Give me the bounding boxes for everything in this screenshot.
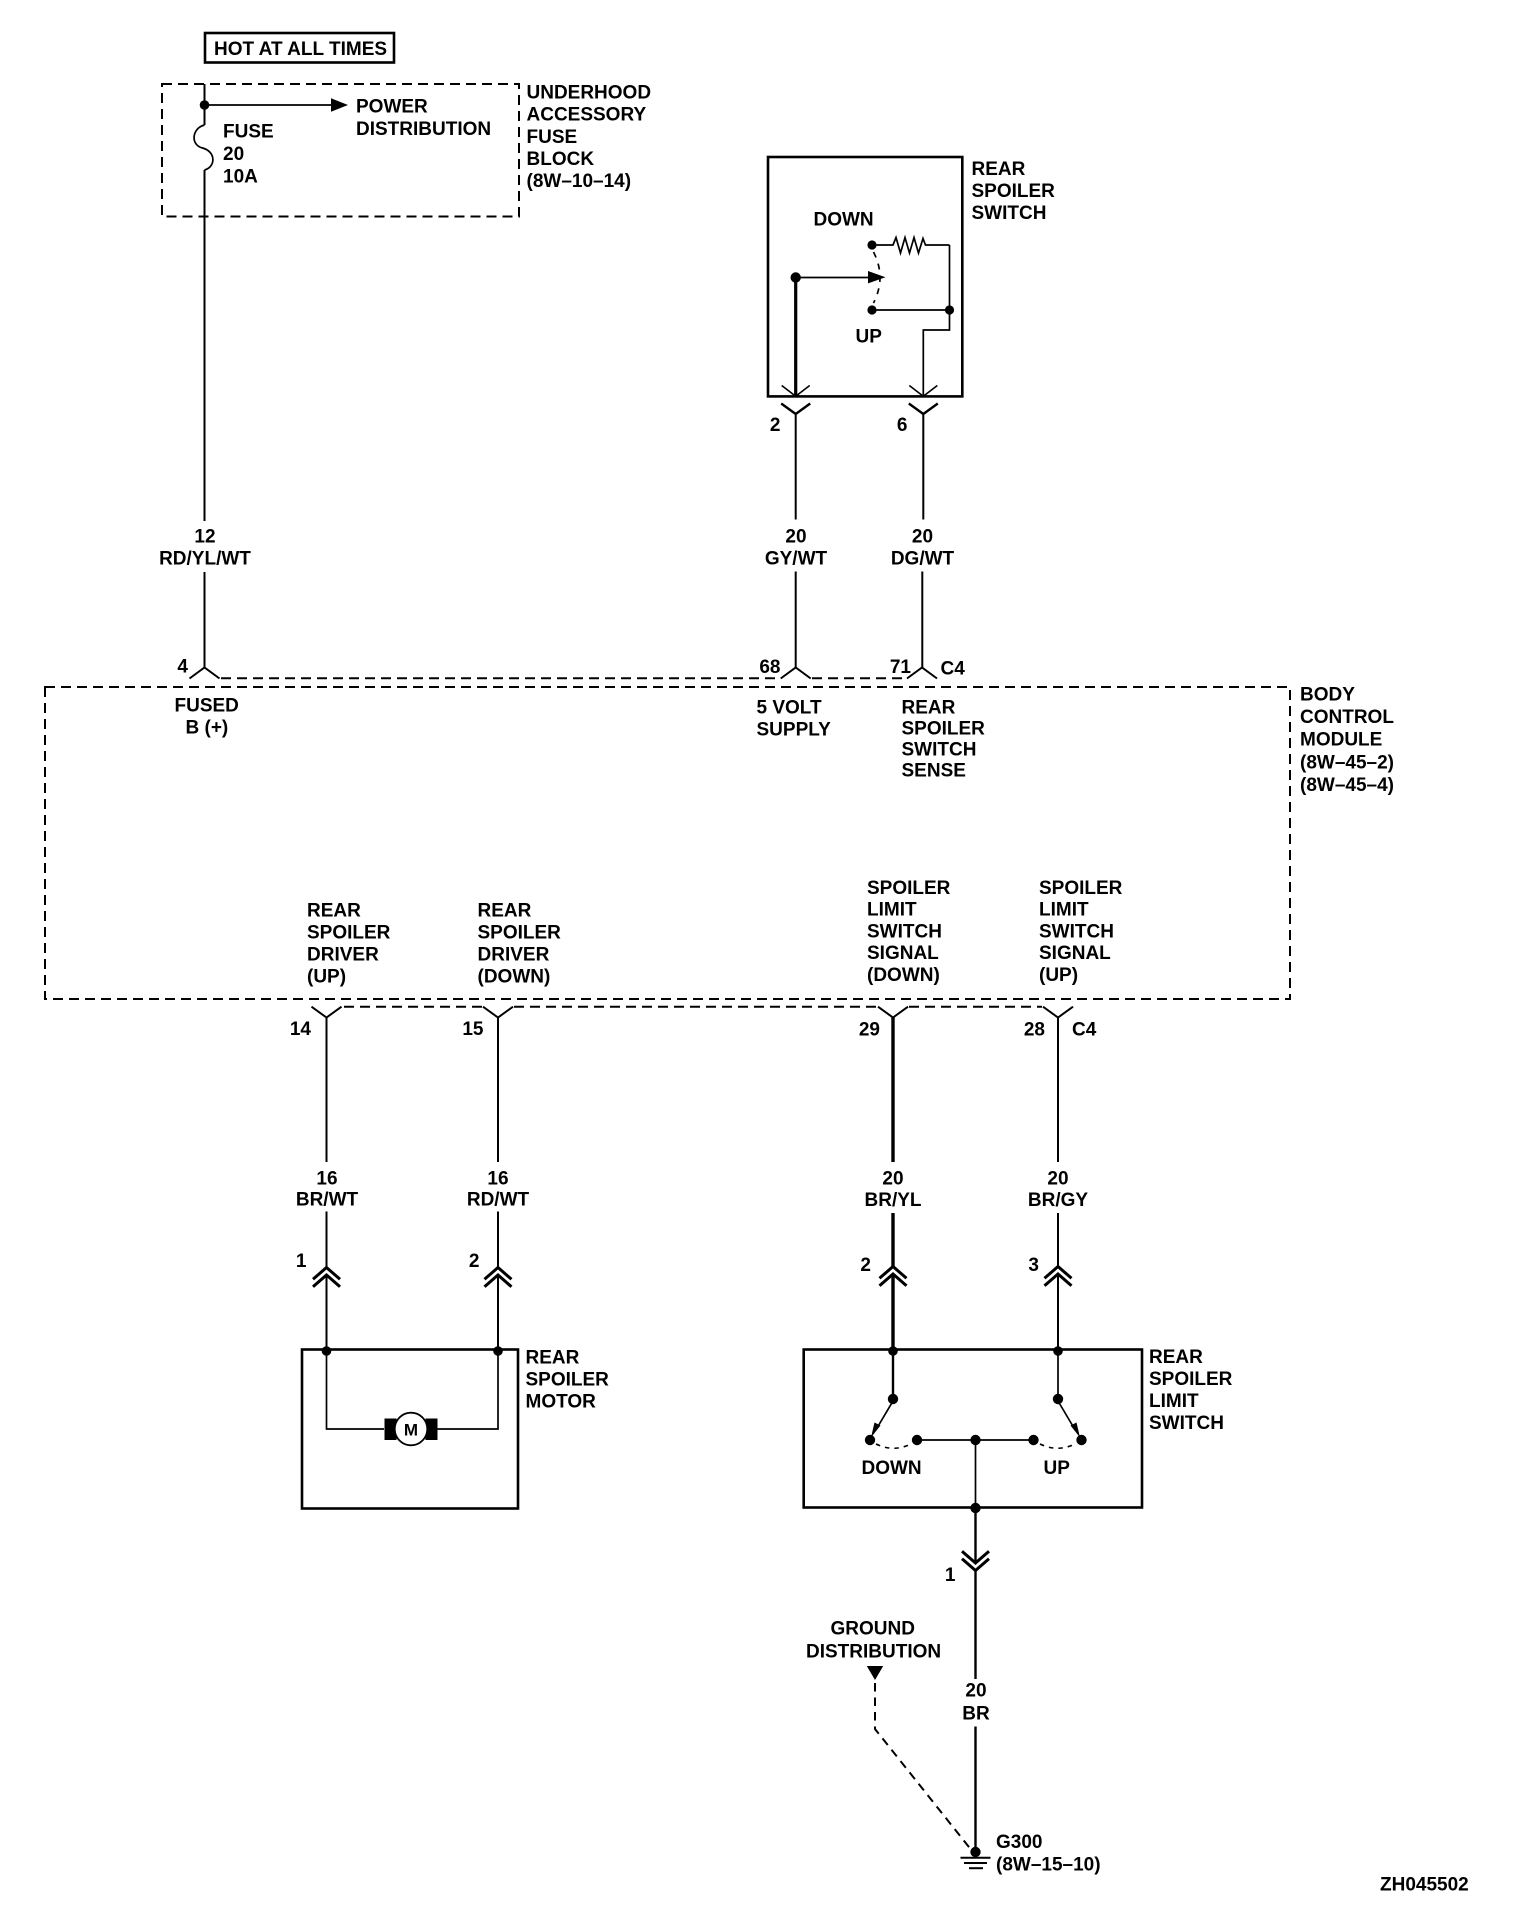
- exit arrow at pin 2: [782, 386, 810, 397]
- wire: limit switch common to inline connector: [974, 1508, 976, 1563]
- wire: BCM pin 15 down to label gap: [497, 1018, 499, 1163]
- svg-text:SPOILER: SPOILER: [902, 719, 986, 740]
- svg-text:SWITCH: SWITCH: [1039, 921, 1114, 942]
- svg-text:1: 1: [296, 1251, 307, 1272]
- wire: RD/YL/WT down to BCM pin 4: [204, 572, 206, 668]
- svg-text:(8W–15–10): (8W–15–10): [996, 1854, 1101, 1875]
- wire label 20 GY/WT: [765, 527, 828, 570]
- pin 28 connector at BCM: [1024, 1007, 1073, 1041]
- svg-text:REAR: REAR: [902, 698, 956, 719]
- svg-text:SWITCH: SWITCH: [902, 740, 977, 761]
- svg-text:4: 4: [177, 657, 188, 678]
- ground G300 symbol: [961, 1858, 991, 1868]
- svg-text:(UP): (UP): [1039, 965, 1078, 986]
- underhood fuse block name label: [527, 82, 652, 192]
- wire: connector to motor box: [326, 1276, 328, 1349]
- wire: right lead to motor: [438, 1351, 499, 1429]
- wire: connector to limit switch box (thick): [891, 1275, 894, 1349]
- wire: BR/GY down to inline connector: [1057, 1213, 1059, 1267]
- svg-text:DRIVER: DRIVER: [478, 945, 550, 966]
- common node: [970, 1435, 980, 1445]
- svg-text:BODY: BODY: [1300, 684, 1355, 705]
- svg-text:LIMIT: LIMIT: [867, 900, 917, 921]
- svg-text:68: 68: [759, 657, 780, 678]
- switch DOWN contact node: [867, 240, 876, 249]
- svg-text:SWITCH: SWITCH: [1149, 1413, 1224, 1434]
- wire: battery feed into fuse: [204, 84, 206, 125]
- rear spoiler limit switch name label: [1149, 1347, 1233, 1434]
- node: down feed at box edge: [888, 1346, 898, 1356]
- switch common node: [791, 272, 801, 282]
- svg-text:6: 6: [897, 415, 908, 436]
- svg-text:16: 16: [487, 1168, 508, 1189]
- svg-text:GROUND: GROUND: [831, 1619, 915, 1640]
- svg-text:20: 20: [882, 1169, 903, 1190]
- svg-text:SPOILER: SPOILER: [867, 878, 951, 899]
- svg-text:SPOILER: SPOILER: [478, 923, 562, 944]
- svg-text:20: 20: [965, 1681, 986, 1702]
- rear spoiler motor name label: [526, 1348, 610, 1413]
- pin 14 connector at BCM: [290, 1007, 342, 1040]
- wire: BR/YL down to inline connector (thick): [891, 1213, 894, 1267]
- ground distribution arrow (filled triangle): [867, 1666, 883, 1680]
- svg-text:71: 71: [890, 657, 912, 678]
- up switch wiper arrow: [1058, 1401, 1080, 1438]
- wire label 20 BR: [962, 1681, 990, 1725]
- pin 29 connector at BCM: [859, 1007, 908, 1041]
- svg-text:MODULE: MODULE: [1300, 730, 1382, 751]
- node REAR SPOILER SWITCH SENSE label: [902, 698, 986, 782]
- svg-text:SWITCH: SWITCH: [867, 921, 942, 942]
- power distribution label: [356, 97, 491, 141]
- svg-text:UNDERHOOD: UNDERHOOD: [527, 82, 652, 103]
- node 5 VOLT SUPPLY label: [757, 698, 832, 741]
- wire: BCM pin 28 down to label gap: [1057, 1018, 1059, 1163]
- wire: fuse output down to label gap: [204, 170, 206, 521]
- svg-text:28: 28: [1024, 1020, 1045, 1041]
- svg-text:2: 2: [860, 1255, 871, 1276]
- pin 4 connector at BCM: [177, 657, 219, 679]
- svg-text:SPOILER: SPOILER: [526, 1370, 610, 1391]
- svg-text:UP: UP: [1044, 1458, 1071, 1479]
- wire: common down to box edge: [975, 1440, 977, 1508]
- svg-text:SIGNAL: SIGNAL: [867, 943, 939, 964]
- wire: pin 2 down to label gap: [795, 414, 797, 520]
- svg-text:ZH045502: ZH045502: [1380, 1875, 1469, 1896]
- svg-text:DRIVER: DRIVER: [307, 945, 379, 966]
- svg-text:G300: G300: [996, 1832, 1042, 1853]
- wire: common down to pin 2 (thick): [794, 278, 797, 397]
- pin 15 connector at BCM: [462, 1007, 513, 1040]
- svg-text:2: 2: [770, 415, 781, 436]
- svg-text:CONTROL: CONTROL: [1300, 707, 1394, 728]
- exit arrow at pin 6: [909, 386, 937, 397]
- svg-text:C4: C4: [941, 659, 966, 680]
- wire: feed to power distribution with arrow: [205, 98, 349, 112]
- switch wiper arrow: [796, 271, 886, 283]
- wire label 16 RD/WT: [467, 1168, 530, 1210]
- svg-text:REAR: REAR: [1149, 1347, 1203, 1368]
- svg-text:2: 2: [469, 1251, 480, 1272]
- svg-text:RD/WT: RD/WT: [467, 1190, 530, 1211]
- pin 6 connector below switch: [897, 404, 938, 437]
- node FUSED B(+) label: [175, 696, 239, 739]
- svg-text:14: 14: [290, 1019, 312, 1040]
- pin 2 connector below switch: [770, 404, 810, 437]
- svg-text:SPOILER: SPOILER: [972, 181, 1056, 202]
- svg-text:(8W–45–2): (8W–45–2): [1300, 752, 1394, 773]
- wire: poles to common: [917, 1439, 1034, 1441]
- svg-text:SIGNAL: SIGNAL: [1039, 943, 1111, 964]
- down switch pivot node: [888, 1394, 898, 1404]
- fuse F20 value label: [223, 122, 274, 188]
- svg-text:GY/WT: GY/WT: [765, 549, 828, 570]
- node: ground exit at box edge: [970, 1503, 980, 1513]
- node SPOILER LIMIT SWITCH SIGNAL (UP) label: [1039, 878, 1123, 986]
- wire label 20 DG/WT: [891, 527, 955, 570]
- svg-text:16: 16: [316, 1168, 337, 1189]
- inline connector pin 2 (limit switch): [860, 1255, 906, 1286]
- inline connector pin 3 (limit switch): [1028, 1255, 1071, 1286]
- body control module (dashed box): [45, 687, 1290, 999]
- ground distribution label: [806, 1619, 941, 1663]
- svg-text:10A: 10A: [223, 167, 258, 188]
- wire: connector to limit switch box: [1057, 1275, 1059, 1349]
- svg-text:(8W–10–14): (8W–10–14): [527, 171, 632, 192]
- svg-text:(DOWN): (DOWN): [867, 965, 940, 986]
- node REAR SPOILER DRIVER (UP) label: [307, 901, 391, 988]
- svg-text:DISTRIBUTION: DISTRIBUTION: [356, 119, 491, 140]
- wire: BCM pin 29 down to label gap (thick): [891, 1018, 894, 1163]
- svg-text:REAR: REAR: [526, 1348, 580, 1369]
- svg-text:DG/WT: DG/WT: [891, 549, 955, 570]
- node at G300: [970, 1847, 980, 1857]
- wire: up feed into switch: [1057, 1351, 1059, 1399]
- svg-text:FUSED: FUSED: [175, 696, 239, 717]
- motor M1 symbol: [385, 1413, 438, 1446]
- down switch wiper arrow: [871, 1401, 893, 1438]
- svg-text:5 VOLT: 5 VOLT: [757, 698, 822, 719]
- svg-text:20: 20: [912, 527, 933, 548]
- svg-text:RD/YL/WT: RD/YL/WT: [159, 549, 251, 570]
- svg-text:REAR: REAR: [972, 159, 1026, 180]
- wire: resistor to junction: [949, 245, 951, 310]
- svg-text:SPOILER: SPOILER: [1039, 878, 1123, 899]
- wire: left lead to motor: [327, 1351, 385, 1429]
- node: motor feed right: [493, 1346, 503, 1356]
- svg-text:B (+): B (+): [186, 718, 229, 739]
- svg-text:DOWN: DOWN: [814, 210, 874, 231]
- up switch pivot node: [1053, 1394, 1063, 1404]
- connector C4 dashed strip (BCM bottom): [344, 1006, 1042, 1008]
- svg-text:MOTOR: MOTOR: [526, 1392, 597, 1413]
- svg-text:(UP): (UP): [307, 967, 346, 988]
- dashed tie: ground distribution to G300: [875, 1683, 971, 1849]
- svg-text:POWER: POWER: [356, 97, 428, 118]
- svg-text:REAR: REAR: [307, 901, 361, 922]
- svg-text:SPOILER: SPOILER: [1149, 1369, 1233, 1390]
- resistor (in spoiler switch): [877, 238, 950, 254]
- down contact node: [865, 1435, 875, 1445]
- inline connector pin 2 (motor): [469, 1251, 512, 1287]
- wire: BR down to ground G300: [974, 1727, 976, 1853]
- svg-text:DOWN: DOWN: [862, 1458, 922, 1479]
- inline connector pin 1 (ground): [945, 1551, 989, 1586]
- pin 68 connector at BCM: [759, 657, 810, 679]
- svg-text:3: 3: [1028, 1255, 1039, 1276]
- svg-text:C4: C4: [1072, 1020, 1097, 1041]
- svg-text:UP: UP: [856, 327, 883, 348]
- svg-text:DISTRIBUTION: DISTRIBUTION: [806, 1642, 941, 1663]
- node: fuse feed junction: [200, 100, 210, 110]
- svg-text:M: M: [404, 1421, 418, 1440]
- fuse F20 symbol: [194, 125, 213, 170]
- wire: BCM pin 14 down to label gap: [326, 1018, 328, 1163]
- rear spoiler motor (box): [302, 1350, 518, 1509]
- switch wiper travel (dashed arc): [874, 252, 881, 303]
- svg-text:20: 20: [785, 527, 806, 548]
- svg-text:FUSE: FUSE: [223, 122, 274, 143]
- node SPOILER LIMIT SWITCH SIGNAL (DOWN) label: [867, 878, 951, 986]
- wire: connector to motor box: [497, 1276, 499, 1349]
- svg-text:12: 12: [194, 527, 215, 548]
- rear spoiler switch name label: [972, 159, 1056, 224]
- wire: pin 6 down to label gap: [922, 414, 924, 520]
- ground G300 label: [996, 1832, 1101, 1876]
- underhood accessory fuse block (dashed box): [162, 84, 519, 217]
- svg-text:ACCESSORY: ACCESSORY: [527, 105, 647, 126]
- wire: BR/WT down to inline connector: [326, 1212, 328, 1268]
- node: up feed at box edge: [1053, 1346, 1063, 1356]
- down pole node: [912, 1435, 922, 1445]
- up wiper travel (dashed arc): [1040, 1444, 1075, 1448]
- svg-text:20: 20: [223, 144, 244, 165]
- wire: down feed into switch: [892, 1351, 894, 1399]
- pin 71 connector at BCM: [890, 657, 937, 679]
- wire: junction jog to pin 6: [923, 310, 949, 396]
- wire: GY/WT down to BCM pin 68: [795, 572, 797, 668]
- svg-text:LIMIT: LIMIT: [1149, 1391, 1199, 1412]
- rear spoiler switch (box): [768, 157, 962, 396]
- node REAR SPOILER DRIVER (DOWN) label: [478, 901, 562, 988]
- svg-text:FUSE: FUSE: [527, 127, 578, 148]
- svg-text:15: 15: [462, 1019, 484, 1040]
- svg-text:BR/GY: BR/GY: [1028, 1190, 1089, 1211]
- svg-text:(8W–45–4): (8W–45–4): [1300, 775, 1394, 796]
- svg-text:SPOILER: SPOILER: [307, 923, 391, 944]
- down wiper travel (dashed arc): [876, 1444, 911, 1448]
- wire: DG/WT down to BCM pin 71: [921, 572, 923, 668]
- svg-text:REAR: REAR: [478, 901, 532, 922]
- up contact node: [1076, 1435, 1086, 1445]
- svg-text:29: 29: [859, 1020, 880, 1041]
- node: resistor/up-contact junction: [945, 305, 954, 314]
- wire: connector down to label gap: [974, 1572, 976, 1680]
- svg-text:BR/YL: BR/YL: [865, 1190, 922, 1211]
- wire label 20 BR/GY: [1028, 1169, 1089, 1211]
- wire label 12 RD/YL/WT: [159, 527, 251, 570]
- wire label 20 BR/YL: [865, 1169, 922, 1211]
- svg-text:20: 20: [1047, 1169, 1068, 1190]
- svg-text:HOT AT ALL TIMES: HOT AT ALL TIMES: [214, 39, 387, 60]
- svg-text:LIMIT: LIMIT: [1039, 900, 1089, 921]
- svg-text:1: 1: [945, 1565, 956, 1586]
- node: motor feed left: [322, 1346, 332, 1356]
- hot-at-all-times label box: [205, 33, 394, 63]
- up pole node: [1028, 1435, 1038, 1445]
- connector C4 dashed strip (BCM top): [221, 677, 906, 679]
- svg-text:(DOWN): (DOWN): [478, 967, 551, 988]
- wire: RD/WT down to inline connector: [497, 1212, 499, 1268]
- svg-text:BR/WT: BR/WT: [296, 1190, 359, 1211]
- svg-text:BR: BR: [962, 1704, 990, 1725]
- svg-text:SUPPLY: SUPPLY: [757, 720, 832, 741]
- rear spoiler limit switch (box): [804, 1350, 1142, 1508]
- inline connector pin 1 (motor): [296, 1251, 340, 1287]
- wire label 16 BR/WT: [296, 1168, 359, 1210]
- wire: up contact to junction: [872, 309, 950, 311]
- switch UP contact node: [867, 305, 876, 314]
- svg-text:SENSE: SENSE: [902, 761, 966, 782]
- svg-text:SWITCH: SWITCH: [972, 203, 1047, 224]
- svg-text:BLOCK: BLOCK: [527, 149, 595, 170]
- body control module name label: [1300, 684, 1394, 796]
